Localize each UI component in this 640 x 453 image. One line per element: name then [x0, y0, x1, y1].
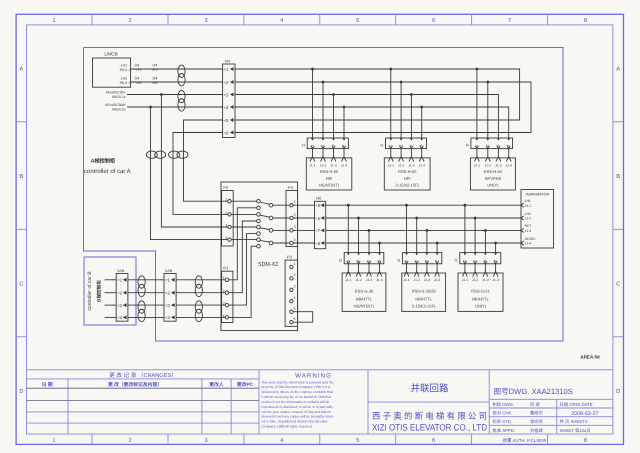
svg-text:J1-4: J1-4 — [525, 242, 532, 246]
wire G group2 pin4 to J1-4 — [435, 261, 440, 277]
wire tap L8 to G group2 pin4 — [436, 242, 439, 253]
svg-text:3: 3 — [294, 285, 296, 289]
svg-text:J1-3: J1-3 — [330, 164, 337, 168]
svg-text:WARNING: WARNING — [295, 372, 332, 379]
svg-text:2-15#(2-15F): 2-15#(2-15F) — [396, 183, 420, 188]
wire 5AB link 4 — [128, 316, 164, 318]
wire P2-3 to switch S3 — [231, 226, 257, 228]
wire H4-6 to P2-2 — [173, 133, 228, 215]
svg-text:J1-3: J1-3 — [424, 278, 431, 282]
svg-text:AREA 2a: AREA 2a — [112, 107, 126, 111]
wire H group3 pin3 to J1-3 — [496, 146, 501, 162]
svg-text:1: 1 — [52, 438, 55, 444]
wire switch S4 lower throw to P1-4 — [229, 246, 257, 317]
wire H group1 pin2 to J1-2 — [321, 146, 326, 162]
switch S2 — [257, 213, 273, 223]
wire tap W4 to H group2 pin4 — [420, 106, 423, 138]
wire 5AB to P1-4 — [176, 316, 225, 318]
svg-text:J1-2: J1-2 — [485, 164, 492, 168]
svg-text:6: 6 — [432, 437, 435, 444]
wire H group3 pin2 to J1-2 — [485, 146, 490, 162]
svg-text:neither it nor the informatio: neither it nor the information it contai… — [262, 400, 330, 404]
svg-text:更 改（更改标记及内容）: 更 改（更改标记及内容） — [108, 381, 162, 388]
wire switch S4 pole to P4-4 — [273, 242, 290, 244]
svg-text:This work and the information: This work and the information it contain… — [262, 380, 334, 384]
connector G group1 — [339, 253, 384, 264]
svg-text:J1-1: J1-1 — [474, 164, 481, 168]
svg-text:J1-4: J1-4 — [418, 164, 425, 168]
wire P4-2 to H6-6 — [293, 217, 314, 219]
svg-text:<8: <8 — [315, 241, 321, 246]
svg-text:2: 2 — [128, 17, 131, 24]
svg-text:B: B — [616, 174, 620, 180]
module U5 RSS-G-33/35 HB/HTTL — [402, 273, 446, 311]
svg-text:8: 8 — [584, 17, 587, 24]
svg-text:<3: <3 — [224, 92, 230, 97]
svg-text:demand it and any copies will: demand it and any copies will be promptl… — [262, 415, 335, 419]
connector P1 — [222, 266, 233, 323]
svg-text:>: > — [128, 68, 130, 72]
svg-text:J1-2: J1-2 — [472, 278, 479, 282]
wire 5AB to P1-1 — [176, 279, 225, 281]
svg-text:2: 2 — [294, 213, 296, 217]
wire tap L7 to G group3 pin3 — [484, 229, 487, 253]
svg-text:J1-3: J1-3 — [525, 229, 532, 233]
svg-text:J1-2: J1-2 — [398, 164, 405, 168]
wire bus L5 H6-5 to terminator J1-1 — [326, 204, 521, 206]
svg-text:DC30V: DC30V — [525, 237, 537, 241]
svg-text:P1: P1 — [223, 266, 229, 271]
svg-text:<2: <2 — [117, 291, 123, 296]
wire G group1 pin2 to J1-2 — [356, 261, 361, 277]
svg-text:J1-3: J1-3 — [366, 278, 373, 282]
svg-text:2008-03-27: 2008-03-27 — [571, 411, 599, 417]
svg-text:<4: <4 — [165, 315, 171, 320]
twisted pair verticals 3-4 — [169, 151, 180, 158]
twisted pair car B rows 3-4 left — [138, 301, 145, 313]
svg-text:H: H — [466, 142, 469, 147]
wire 5AB link 2 — [128, 292, 164, 294]
twisted pair car B rows 1-2 right — [195, 276, 202, 288]
svg-text:1: 1 — [294, 200, 296, 204]
svg-text:J1-3: J1-3 — [495, 164, 502, 168]
area boundary controller of car A — [84, 48, 564, 342]
svg-text:8: 8 — [584, 437, 587, 444]
svg-text:G: G — [454, 258, 457, 263]
svg-text:校对 CHK.: 校对 CHK. — [493, 411, 513, 416]
svg-text:<1: <1 — [165, 278, 171, 283]
svg-text:HB/HTTL: HB/HTTL — [356, 297, 373, 302]
wire tap L8 to G group3 pin4 — [494, 242, 497, 253]
svg-text:UN(Y): UN(Y) — [487, 183, 499, 188]
svg-text:XIZI OTIS ELEVATOR CO., LTD: XIZI OTIS ELEVATOR CO., LTD — [372, 423, 487, 433]
svg-text:曹晓东: 曹晓东 — [530, 411, 544, 416]
svg-text:G: G — [397, 258, 400, 263]
svg-text:A: A — [616, 67, 620, 73]
module U1 RSS-H-60 HPI — [306, 158, 352, 190]
wire LH1 LMCB P6-3 to H4-1 — [131, 64, 223, 72]
wire 5AB to P1-3 — [176, 304, 225, 306]
svg-text:SHEET 第12a页: SHEET 第12a页 — [560, 428, 592, 433]
wire H4-5 to P2-1 — [184, 120, 228, 201]
svg-text:<2: <2 — [224, 80, 230, 85]
connector P4 — [286, 185, 298, 247]
wire bus W3 H4-3 — [235, 95, 498, 139]
svg-text:3: 3 — [204, 437, 207, 444]
svg-text:RSS-G-21: RSS-G-21 — [471, 289, 490, 294]
svg-text:RSS-G-33/35: RSS-G-33/35 — [412, 289, 437, 294]
wire bus W2 H4-2 wrap to H4-6 — [235, 82, 531, 133]
svg-text:H4: H4 — [225, 58, 231, 63]
wire DC30V to H4-3 — [127, 94, 223, 96]
wire bus L6 H6-6 to terminator J1-2 — [326, 217, 521, 219]
wire switch S3 lower throw to P1-3 — [229, 234, 257, 306]
svg-text:J1-4: J1-4 — [492, 278, 499, 282]
svg-text:5: 5 — [356, 438, 359, 444]
wire H group3 pin4 to J1-4 — [506, 146, 511, 162]
wire car B stub 2 — [105, 292, 117, 294]
wire G group1 pin3 to J1-3 — [367, 261, 372, 277]
wire tap L5 to G group1 pin1 — [347, 204, 350, 253]
svg-text:controller of car B: controller of car B — [87, 271, 93, 311]
wire H group2 pin4 to J1-4 — [419, 146, 424, 162]
twisted pair rows 3-4 — [178, 90, 185, 102]
svg-text:批准 APPD.: 批准 APPD. — [493, 428, 516, 433]
wire tap W1 to H group1 pin1 — [311, 68, 314, 138]
connector H6 — [315, 196, 326, 249]
svg-text:Company 1998.All rights reserv: Company 1998.All rights reserved. — [262, 425, 313, 429]
svg-text:J1-4: J1-4 — [505, 164, 512, 168]
svg-text:LH1: LH1 — [525, 199, 531, 203]
wire G group2 pin3 to J1-3 — [425, 261, 430, 277]
wire 5AB link 1 — [128, 279, 164, 281]
wire G group1 pin4 to J1-4 — [377, 261, 382, 277]
svg-text:reproduced or disclosed, in wh: reproduced or disclosed, in whole or in … — [262, 405, 334, 409]
svg-text:1: 1 — [225, 198, 227, 202]
wire bus W4 H4-4 — [235, 107, 509, 138]
wire tap W1 to H group3 pin1 — [476, 68, 479, 138]
wire H group2 pin3 to J1-3 — [409, 146, 414, 162]
connector G group3 — [454, 253, 500, 264]
svg-text:P6-4: P6-4 — [120, 81, 128, 85]
svg-text:5AB: 5AB — [118, 269, 126, 273]
svg-text:HB/HTTL: HB/HTTL — [415, 297, 432, 302]
svg-text:4: 4 — [225, 236, 227, 240]
wire switch S1 pole to P4-1 — [273, 204, 290, 206]
connector H group3 — [466, 138, 513, 149]
svg-text:HPI: HPI — [404, 176, 411, 181]
cable label M2x DC30W AREA 2a — [105, 103, 126, 111]
svg-text:授权 AUTH. P.CL3039: 授权 AUTH. P.CL3039 — [503, 438, 547, 443]
title block — [27, 370, 613, 434]
wire car B stub 3 — [105, 304, 117, 306]
wire tap L6 to G group2 pin2 — [415, 217, 418, 253]
svg-text:controller of car A: controller of car A — [84, 168, 131, 175]
wire H group3 pin1 to J1-1 — [475, 146, 480, 162]
twisted pair rows 1-2 — [178, 65, 185, 77]
wire tap L6 to G group3 pin2 — [474, 217, 477, 253]
wire switch S3 pole to P4-3 — [273, 229, 290, 231]
connector P3 — [285, 254, 298, 326]
svg-text:<7: <7 — [315, 228, 321, 233]
svg-text:J1-3: J1-3 — [408, 164, 415, 168]
svg-text:P6-3: P6-3 — [120, 68, 128, 72]
svg-text:<5: <5 — [315, 203, 321, 208]
svg-text:<7<: <7< — [136, 68, 143, 72]
svg-text:J1-3: J1-3 — [482, 278, 489, 282]
wire tap L5 to G group2 pin1 — [405, 204, 408, 253]
svg-text:UN(Y): UN(Y) — [475, 304, 487, 309]
wire G group1 pin1 to J1-1 — [346, 261, 351, 277]
svg-text:J1-2: J1-2 — [320, 164, 327, 168]
cable label M2x DC30V AREA 2a — [106, 91, 126, 99]
svg-text:李向军: 李向军 — [530, 419, 543, 424]
svg-text:AREA 2a: AREA 2a — [112, 95, 126, 99]
wire G group3 pin3 to J1-3 — [483, 261, 488, 277]
svg-text:RET: RET — [525, 224, 532, 228]
svg-text:AREA 8d: AREA 8d — [580, 354, 600, 359]
svg-text:1: 1 — [294, 262, 296, 266]
connector H4 — [223, 58, 235, 137]
wire tap L6 to G group1 pin2 — [357, 217, 360, 253]
svg-text:刘祖斌: 刘祖斌 — [530, 428, 544, 433]
wire P4-4 to H6-8 — [293, 242, 314, 244]
wire H group1 pin3 to J1-3 — [331, 146, 336, 162]
wire G group2 pin2 to J1-2 — [414, 261, 419, 277]
switch S3 — [257, 225, 273, 235]
svg-text:图号DWG. XAA21310S: 图号DWG. XAA21310S — [494, 387, 573, 396]
svg-text:1: 1 — [52, 18, 55, 24]
twisted pair car B rows 1-2 left — [138, 276, 145, 288]
svg-text:<6: <6 — [315, 216, 321, 221]
connector 5AB car B side — [116, 269, 128, 321]
twisted pair verticals 1-2 — [146, 151, 157, 158]
svg-text:P2: P2 — [223, 185, 229, 190]
wire tap L7 to G group1 pin3 — [368, 229, 371, 253]
svg-text:4: 4 — [294, 296, 296, 300]
svg-text:C: C — [19, 280, 23, 287]
svg-text:A: A — [19, 67, 23, 73]
module U6 RSS-G-21 HB/HTTL — [458, 273, 503, 311]
svg-text:6: 6 — [432, 17, 435, 24]
wire W4 tap to P2-4 — [149, 106, 228, 240]
svg-text:RSS-H-60: RSS-H-60 — [398, 169, 417, 174]
svg-text:delivered to others on the exp: delivered to others on the express condi… — [262, 390, 333, 394]
svg-text:J1-2: J1-2 — [355, 278, 362, 282]
svg-text:<8<: <8< — [136, 81, 143, 85]
wire P2-2 to switch S2 — [231, 213, 257, 215]
wire tap W3 to H group1 pin3 — [332, 93, 335, 138]
svg-text:J1-1: J1-1 — [403, 278, 410, 282]
wire switch S2 lower throw to P1-2 — [229, 221, 257, 293]
wire tap L5 to G group3 pin1 — [464, 204, 467, 253]
wire LH2 LMCB P6-4 to H4-2 — [131, 77, 223, 85]
svg-text:5AB: 5AB — [165, 269, 173, 273]
svg-text:<4: <4 — [117, 315, 123, 320]
svg-text:2: 2 — [294, 273, 296, 277]
svg-text:<1: <1 — [117, 278, 123, 283]
wire G group3 pin1 to J1-1 — [463, 261, 468, 277]
terminator plug TERMINATOR — [521, 190, 554, 249]
svg-text:C: C — [616, 280, 620, 287]
svg-text:NS/NT(NT): NS/NT(NT) — [319, 183, 340, 188]
svg-text:<3: <3 — [165, 303, 171, 308]
wire 5AB link 3 — [128, 304, 164, 306]
svg-text:制图 DWN.: 制图 DWN. — [493, 402, 514, 407]
module U2 RSS-H-60 HPI — [384, 158, 430, 190]
svg-text:J1-4: J1-4 — [341, 164, 348, 168]
wire P2-4 to switch S4 — [231, 239, 257, 241]
wire G group2 pin1 to J1-1 — [404, 261, 409, 277]
wire P4-1 to H6-5 — [293, 204, 314, 206]
connector 5AB car A side — [164, 269, 176, 321]
svg-text:J1-1: J1-1 — [525, 204, 532, 208]
svg-text:D: D — [616, 389, 620, 395]
wire tap W4 to H group1 pin4 — [343, 106, 346, 138]
svg-text:J1-4: J1-4 — [434, 278, 441, 282]
svg-text:RSS-G-36: RSS-G-36 — [355, 289, 374, 294]
svg-text:HPVPNS: HPVPNS — [485, 176, 502, 181]
svg-text:property of Otis Elevator Com: property of Otis Elevator Company (“Otis… — [262, 385, 331, 389]
svg-text:日期 ORIG.DATE: 日期 ORIG.DATE — [560, 402, 593, 407]
wire RET to H4-4 — [127, 106, 223, 108]
svg-text:何 斌: 何 斌 — [530, 402, 540, 407]
svg-text:P3: P3 — [287, 254, 293, 259]
svg-text:A梯控制柜: A梯控制柜 — [91, 157, 116, 164]
svg-text:>8>: >8> — [152, 81, 159, 85]
svg-text:HB/HTTL: HB/HTTL — [472, 297, 489, 302]
svg-text:西 子 奥 的 斯 电 梯 有 限 公 司: 西 子 奥 的 斯 电 梯 有 限 公 司 — [372, 411, 487, 421]
wire tap W2 to H group1 pin2 — [322, 81, 325, 138]
svg-text:2-15#(2-15F): 2-15#(2-15F) — [412, 304, 436, 309]
svg-text:J1-1: J1-1 — [388, 164, 395, 168]
svg-text:<1: <1 — [224, 67, 230, 72]
wire G group3 pin4 to J1-4 — [493, 261, 498, 277]
switch S4 — [257, 238, 273, 248]
svg-text:标审 STD.: 标审 STD. — [493, 419, 513, 424]
svg-text:<6: <6 — [224, 130, 230, 135]
svg-text:B梯控制柜: B梯控制柜 — [97, 280, 102, 302]
wire switch S1 lower throw to P1-1 — [229, 208, 257, 280]
wire H group1 pin1 to J1-1 — [310, 146, 315, 162]
svg-text:日 期: 日 期 — [42, 381, 53, 388]
svg-text:4: 4 — [294, 238, 296, 242]
svg-text:<5: <5 — [224, 118, 230, 123]
svg-text:5: 5 — [294, 307, 296, 311]
connector H group2 — [380, 138, 426, 149]
svg-text:J1-4: J1-4 — [376, 278, 383, 282]
svg-text:<3: <3 — [117, 303, 123, 308]
wire tap L8 to G group1 pin4 — [378, 242, 381, 253]
connector H group1 — [302, 138, 348, 149]
svg-text:<4: <4 — [224, 105, 230, 110]
wire 5AB to P1-2 — [176, 292, 225, 294]
svg-text:J1-2: J1-2 — [413, 278, 420, 282]
wire tap W2 to H group3 pin2 — [486, 81, 489, 138]
svg-text:ed to Otis. Unpublished W: ed to Otis. Unpublished Work© Otis Eleva… — [262, 420, 329, 424]
connector G group2 — [397, 253, 442, 264]
svg-text:J1-2: J1-2 — [525, 217, 532, 221]
svg-text:it will be used only for, or o: it will be used only for, or on behalf o… — [262, 395, 331, 399]
jumper P3-5 to P3-6 — [293, 312, 313, 323]
svg-text:>: > — [128, 81, 130, 85]
wire tap W3 to H group2 pin3 — [410, 93, 413, 138]
wire H group2 pin1 to J1-1 — [388, 146, 393, 162]
svg-text:3: 3 — [204, 17, 207, 24]
svg-text:更 改 记 录 （CHANGES）: 更 改 记 录 （CHANGES） — [109, 372, 176, 379]
switch S1 — [257, 199, 273, 209]
svg-text:J1-1: J1-1 — [309, 164, 316, 168]
svg-text:HPI: HPI — [326, 176, 333, 181]
svg-text:3: 3 — [225, 223, 227, 227]
area boundary controller of car B — [84, 257, 136, 325]
module U3 RSS-H-60 HPVPNS — [470, 158, 515, 190]
svg-text:3: 3 — [294, 225, 296, 229]
connector P2 — [222, 185, 234, 246]
svg-text:G: G — [339, 258, 342, 263]
svg-text:5: 5 — [356, 18, 359, 24]
svg-text:7: 7 — [508, 18, 511, 24]
svg-text:更改PC: 更改PC — [237, 381, 254, 388]
svg-text:H: H — [380, 142, 383, 147]
svg-text:<2: <2 — [165, 291, 171, 296]
svg-text:>7>: >7> — [152, 68, 159, 72]
svg-text:J1-1: J1-1 — [345, 278, 352, 282]
svg-text:共 页 SHEETS: 共 页 SHEETS — [560, 419, 588, 424]
svg-text:6: 6 — [294, 317, 296, 321]
svg-text:P4: P4 — [288, 185, 294, 190]
wire tap W1 to H group2 pin1 — [389, 68, 392, 138]
svg-text:SDM-XZ: SDM-XZ — [258, 261, 279, 268]
wire switch S2 pole to P4-2 — [273, 217, 290, 219]
label controller of car A — [84, 157, 131, 175]
svg-text:H: H — [302, 142, 305, 147]
twisted pair car B rows 3-4 right — [195, 301, 202, 313]
wire P4-3 to H6-7 — [293, 229, 314, 231]
svg-text:LMCB: LMCB — [104, 52, 117, 58]
wire P2-1 to switch S1 — [231, 200, 257, 202]
svg-text:J1-1: J1-1 — [462, 278, 469, 282]
svg-text:2: 2 — [225, 211, 227, 215]
wire bus L8 H6-8 to terminator J1-4 — [326, 242, 521, 244]
switch module SDM-XZ — [221, 182, 298, 331]
wire bus L7 H6-7 to terminator J1-3 — [326, 229, 521, 231]
svg-text:B: B — [19, 174, 23, 180]
wire H group1 pin4 to J1-4 — [342, 146, 347, 162]
svg-text:H6: H6 — [316, 196, 322, 201]
svg-text:并联回路: 并联回路 — [411, 383, 449, 395]
svg-text:TERMINATOR: TERMINATOR — [525, 192, 549, 196]
svg-text:out the prior written consent: out the prior written consent of Otis,an… — [262, 410, 332, 414]
svg-text:更改人: 更改人 — [209, 381, 224, 388]
wire car B stub 4 — [105, 316, 117, 318]
module U4 RSS-G-36 HB/HTTL — [342, 273, 386, 311]
wire car B stub 1 — [105, 279, 117, 281]
wire G group3 pin2 to J1-2 — [473, 261, 478, 277]
wire tap L7 to G group2 pin3 — [426, 229, 429, 253]
wire bus W1 H4-1 wrap to H4-5 — [235, 69, 520, 120]
wire H group2 pin2 to J1-2 — [399, 146, 404, 162]
svg-text:NS/NT(NT): NS/NT(NT) — [354, 304, 375, 309]
wire W3 tap to P2-3 — [160, 93, 228, 227]
controller board LMCB — [93, 52, 131, 88]
svg-text:RSS-H-60: RSS-H-60 — [484, 169, 503, 174]
svg-text:2: 2 — [128, 437, 131, 444]
svg-text:RSS-H-60: RSS-H-60 — [320, 169, 339, 174]
svg-text:LH2: LH2 — [525, 212, 531, 216]
svg-text:D: D — [19, 389, 23, 395]
wire tap W2 to H group2 pin2 — [400, 81, 403, 138]
